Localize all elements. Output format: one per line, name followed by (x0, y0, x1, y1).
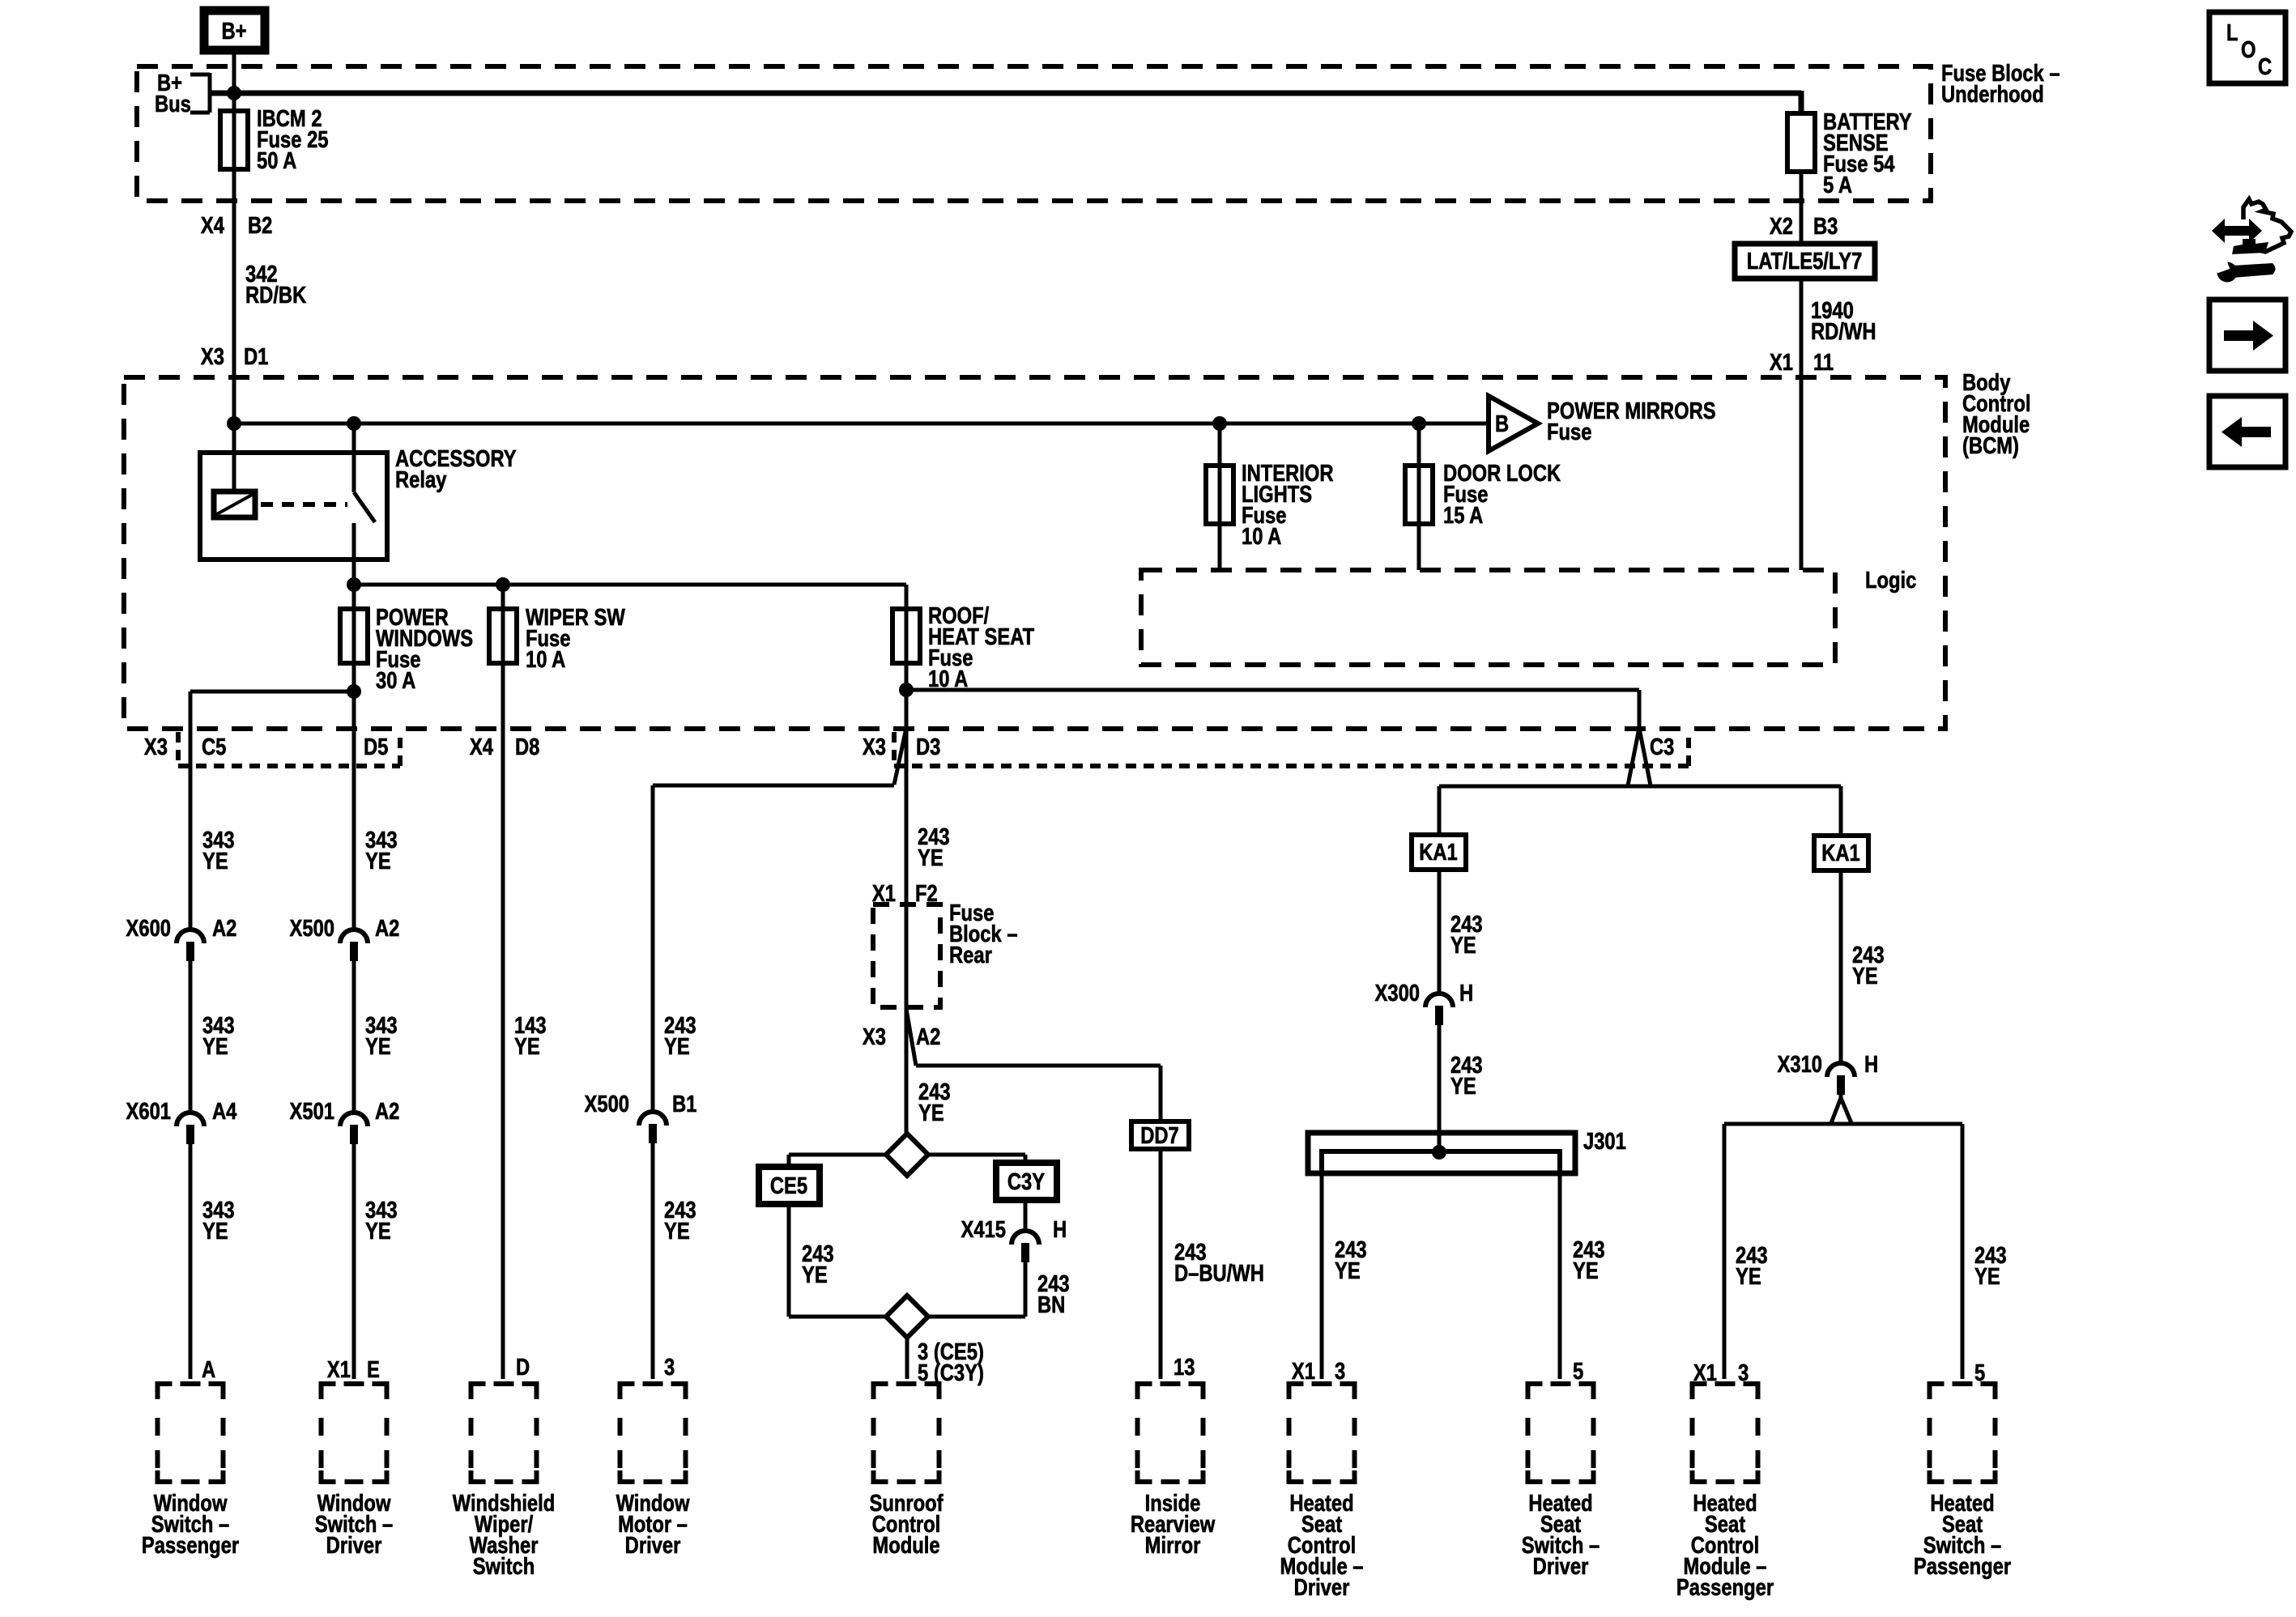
fuse DOOR LOCK 15 A (1405, 423, 1561, 570)
svg-text:A2: A2 (916, 1023, 940, 1050)
label Window Switch - Driver (315, 1490, 393, 1559)
option box CE5 (759, 1167, 820, 1204)
svg-text:A4: A4 (212, 1098, 237, 1125)
wire 343 YE (driver upper) (365, 827, 398, 874)
wire 243 YE (J301 to module driver) (1322, 1173, 1367, 1379)
wire 243 D-BU/WH (1161, 1149, 1264, 1379)
terminal B+ (204, 11, 265, 50)
pin C3 (1650, 734, 1674, 760)
junction power windows fuse (347, 577, 361, 592)
connector X3 bracket (D3 C3) (894, 732, 1689, 766)
svg-text:Underhood: Underhood (1941, 81, 2044, 108)
heated seat switch passenger box (1928, 1381, 1998, 1484)
svg-text:C5: C5 (202, 734, 226, 760)
icon arrow right (2209, 300, 2285, 371)
junction wiper sw fuse (496, 577, 510, 592)
svg-text:YE: YE (365, 1218, 391, 1245)
svg-text:(BCM): (BCM) (1962, 432, 2019, 459)
label Windshield Wiper/Washer Switch (453, 1490, 556, 1580)
svg-text:10 A: 10 A (526, 646, 565, 673)
svg-text:YE: YE (365, 848, 391, 874)
icon arrow left (2209, 396, 2285, 467)
pin 13 (1174, 1354, 1195, 1381)
wire 243 YE (switch passenger) (1974, 1242, 2007, 1290)
node B+ Bus bracket (155, 70, 210, 117)
svg-text:Driver: Driver (1294, 1574, 1350, 1601)
svg-text:L: L (2226, 19, 2238, 46)
svg-text:X4: X4 (470, 734, 493, 760)
svg-text:D3: D3 (916, 734, 940, 760)
label Window Switch - Passenger (142, 1490, 239, 1559)
svg-text:5: 5 (1573, 1358, 1583, 1385)
svg-text:X501: X501 (290, 1098, 334, 1125)
wire window switch driver column (352, 729, 356, 1379)
connector KA1 (passenger) (1814, 836, 1868, 870)
wire 343 YE (passenger upper) (202, 827, 235, 874)
connector X300 H (1375, 980, 1474, 1025)
svg-text:Logic: Logic (1865, 567, 1916, 594)
fuse block rear dashed box (873, 900, 1018, 1007)
svg-text:B2: B2 (248, 212, 272, 239)
svg-text:11: 11 (1813, 349, 1834, 376)
svg-text:D8: D8 (515, 734, 539, 760)
svg-text:X3: X3 (201, 343, 224, 370)
svg-text:YE: YE (1450, 1073, 1476, 1100)
wire 343 YE (passenger middle) (202, 1012, 235, 1060)
label Inside Rearview Mirror (1131, 1490, 1216, 1559)
svg-text:YE: YE (1573, 1257, 1599, 1284)
wire X310 split (1724, 1098, 1962, 1379)
svg-text:BN: BN (1037, 1291, 1065, 1318)
connector X500 B1 (585, 1091, 697, 1143)
svg-text:X1: X1 (327, 1356, 351, 1383)
fuse IBCM 2 Fuse 25 50 A (220, 105, 329, 174)
wire B+ terminal to IBCM 2 fuse and relay coil (232, 50, 236, 491)
svg-text:DD7: DD7 (1140, 1122, 1179, 1149)
wire 243 YE (module passenger) (1736, 1242, 1768, 1290)
wire 243 YE (KA1 driver) (1439, 870, 1483, 1152)
svg-text:Driver: Driver (326, 1532, 382, 1559)
wire windshield wiper column 143 YE (503, 729, 547, 1379)
connector X600 A2 (126, 915, 237, 961)
svg-text:Switch: Switch (473, 1553, 535, 1580)
window switch driver box (319, 1381, 390, 1484)
sunroof control module box (871, 1381, 942, 1484)
svg-text:X2: X2 (1770, 213, 1793, 240)
wire diamond to C3Y (928, 1155, 1025, 1163)
svg-text:B3: B3 (1813, 213, 1838, 240)
svg-text:D: D (516, 1354, 530, 1381)
svg-text:X601: X601 (126, 1098, 171, 1125)
svg-text:D1: D1 (244, 343, 268, 370)
icon LOC (2209, 12, 2285, 83)
pin X1 E (327, 1356, 380, 1383)
wire relay output feeder (354, 583, 906, 587)
label Window Motor - Driver (616, 1490, 690, 1559)
svg-text:X310: X310 (1778, 1051, 1822, 1078)
wire 243 YE (window motor lower) (664, 1197, 696, 1245)
svg-text:YE: YE (202, 1218, 228, 1245)
svg-text:YE: YE (1974, 1263, 2000, 1290)
svg-text:RD/BK: RD/BK (245, 282, 306, 309)
junction J301 (1432, 1145, 1446, 1160)
fuse POWER MIRRORS (triangle B) (1489, 396, 1716, 451)
svg-text:C: C (2258, 53, 2272, 80)
svg-text:A2: A2 (212, 915, 236, 942)
wire branch to DD7 (906, 1009, 1161, 1121)
svg-text:3: 3 (1335, 1358, 1345, 1385)
svg-text:YE: YE (918, 845, 944, 871)
svg-text:KA1: KA1 (1419, 839, 1458, 866)
svg-text:3: 3 (664, 1354, 675, 1381)
wire roof/heat seat branch to C3 (906, 690, 1639, 728)
wire 243 YE (above fuse block rear) (918, 823, 950, 871)
svg-text:X3: X3 (863, 734, 886, 760)
svg-text:50 A: 50 A (257, 147, 296, 174)
pin D5 (364, 734, 388, 760)
connector X601 A4 (126, 1098, 237, 1144)
pin D (516, 1354, 530, 1381)
svg-text:13: 13 (1174, 1354, 1195, 1381)
junction roof/heat seat branch (899, 683, 914, 697)
pin A (202, 1356, 215, 1383)
pin X4 B2 (201, 212, 272, 239)
svg-text:B+: B+ (221, 18, 246, 45)
svg-text:X3: X3 (863, 1023, 886, 1050)
pin 5 (switch driver) (1573, 1358, 1583, 1385)
connector X310 H (1778, 1051, 1879, 1095)
svg-text:X600: X600 (126, 915, 171, 942)
wire 243 YE (window motor upper) (664, 1012, 696, 1060)
svg-text:B1: B1 (672, 1091, 696, 1117)
fuse ROOF/HEAT SEAT 10 A (892, 585, 1034, 729)
svg-text:Passenger: Passenger (1676, 1574, 1774, 1601)
fuse WIPER SW 10 A (489, 585, 625, 729)
wire BCM internal feed bus (234, 422, 1488, 426)
svg-text:Passenger: Passenger (1914, 1553, 2011, 1580)
svg-text:YE: YE (1852, 963, 1878, 989)
svg-text:Module: Module (872, 1532, 939, 1559)
svg-text:C3Y: C3Y (1007, 1168, 1046, 1195)
inside rearview mirror box (1135, 1381, 1206, 1484)
pin 3 (CE5) 5 (C3Y) (918, 1338, 984, 1386)
svg-text:YE: YE (918, 1100, 944, 1126)
wire window motor driver branch (653, 728, 906, 1379)
svg-text:Fuse: Fuse (1547, 419, 1591, 445)
svg-text:RD/WH: RD/WH (1811, 318, 1876, 345)
label Heated Seat Switch - Passenger (1914, 1490, 2011, 1580)
pin 5 (switch passenger) (1974, 1360, 1985, 1386)
svg-text:Mirror: Mirror (1145, 1532, 1201, 1559)
wire 243 YE (X300 to J301) (1450, 1052, 1483, 1100)
svg-text:Rear: Rear (949, 942, 992, 968)
label Heated Seat Control Module - Driver (1280, 1490, 1364, 1601)
svg-text:D5: D5 (364, 734, 388, 760)
fuse block underhood dashed box (137, 66, 1931, 201)
icon repair (hand with arrows and wrench) (2212, 199, 2291, 283)
svg-text:H: H (1864, 1051, 1878, 1078)
svg-text:YE: YE (664, 1218, 690, 1245)
pin X2 B3 (1770, 213, 1838, 240)
wire C3 split (1439, 728, 1841, 836)
option box LAT/LE5/LY7 (1735, 244, 1875, 279)
label Logic (1865, 567, 1916, 594)
wire C3Y to X415 (1024, 1200, 1028, 1231)
svg-text:C3: C3 (1650, 734, 1674, 760)
junction door lock fuse feed (1412, 416, 1426, 431)
wire 243 BN (928, 1262, 1070, 1318)
svg-text:Relay: Relay (395, 466, 447, 493)
svg-text:Bus: Bus (155, 91, 191, 117)
svg-text:LAT/LE5/LY7: LAT/LE5/LY7 (1747, 248, 1863, 274)
pin 3 (window motor) (664, 1354, 675, 1381)
svg-text:KA1: KA1 (1821, 840, 1860, 866)
svg-text:X300: X300 (1375, 980, 1420, 1006)
svg-text:A2: A2 (375, 1098, 399, 1125)
wire 343 YE (passenger lower) (202, 1197, 235, 1245)
pin X3 D1 (201, 343, 268, 370)
connector DD7 (1131, 1121, 1189, 1149)
pin X3 D3 (863, 734, 940, 760)
wire power windows branch to C5 (190, 691, 354, 729)
svg-text:Driver: Driver (1533, 1553, 1589, 1580)
svg-text:X500: X500 (290, 915, 334, 942)
svg-text:H: H (1053, 1216, 1067, 1243)
svg-text:X4: X4 (201, 212, 224, 239)
svg-text:YE: YE (1335, 1257, 1361, 1284)
junction interior lights fuse feed (1212, 416, 1227, 431)
wire 342 RD/BK (245, 261, 306, 309)
wire diamond to CE5 (789, 1155, 886, 1167)
svg-text:YE: YE (664, 1033, 690, 1060)
svg-text:YE: YE (514, 1033, 540, 1060)
windshield wiper/washer switch box (469, 1381, 539, 1484)
svg-text:E: E (367, 1356, 380, 1383)
svg-text:A2: A2 (375, 915, 399, 942)
wire 243 YE (KA1 passenger) (1841, 870, 1885, 1100)
svg-text:YE: YE (1736, 1263, 1761, 1290)
svg-text:X415: X415 (961, 1216, 1006, 1243)
connector X501 A2 (290, 1098, 400, 1144)
fuse POWER WINDOWS 30 A (340, 585, 473, 729)
window switch passenger box (155, 1381, 226, 1484)
fuse INTERIOR LIGHTS 10 A (1206, 423, 1334, 570)
wire battery sense to BCM logic (1800, 172, 1804, 570)
svg-text:O: O (2241, 36, 2256, 63)
svg-text:B: B (1495, 411, 1509, 437)
relay ACCESSORY (200, 423, 517, 585)
logic dashed box (1141, 570, 1835, 665)
svg-text:YE: YE (202, 848, 228, 874)
body control module dashed box (124, 377, 1945, 729)
wire roof fuse to sunroof column (905, 690, 909, 1134)
svg-text:H: H (1459, 980, 1473, 1006)
label Heated Seat Switch - Driver (1522, 1490, 1600, 1580)
wire 343 YE (driver middle) (365, 1012, 398, 1060)
splice pack J301 (1308, 1128, 1626, 1173)
svg-text:Driver: Driver (625, 1532, 681, 1559)
svg-text:30 A: 30 A (376, 667, 415, 694)
svg-text:X1: X1 (1292, 1358, 1315, 1385)
wire B+ bus (210, 91, 1801, 113)
wire lower diamond to sunroof module (905, 1338, 909, 1379)
splice diamond lower (886, 1296, 928, 1338)
svg-text:D–BU/WH: D–BU/WH (1174, 1260, 1264, 1287)
option box C3Y (996, 1163, 1057, 1200)
svg-text:10 A: 10 A (1242, 523, 1281, 550)
wire CE5 to lower diamond 243 YE (789, 1204, 886, 1317)
label Body Control Module (BCM) (1962, 369, 2030, 459)
svg-text:5 A: 5 A (1823, 172, 1852, 198)
label Fuse Block - Underhood (1941, 60, 2060, 108)
wire 243 YE (J301 to switch driver) (1560, 1173, 1605, 1379)
junction B+ bus / IBCM 2 fuse (227, 86, 241, 100)
pin X1 3 (module passenger) (1693, 1360, 1749, 1386)
pin X4 D8 (470, 734, 539, 760)
connector X3 bracket (C5 D5) (178, 732, 400, 766)
heated seat switch driver box (1526, 1381, 1596, 1484)
wire 343 YE (driver lower) (365, 1197, 398, 1245)
svg-text:YE: YE (202, 1033, 228, 1060)
svg-text:X500: X500 (585, 1091, 629, 1117)
wire 1940 RD/WH (1811, 297, 1876, 345)
svg-text:CE5: CE5 (770, 1172, 807, 1199)
wire window switch passenger column (189, 691, 193, 1379)
svg-text:YE: YE (1450, 932, 1476, 959)
connector X415 H (961, 1216, 1067, 1262)
connector X500 A2 (290, 915, 400, 961)
svg-text:15 A: 15 A (1443, 502, 1483, 529)
label Sunroof Control Module (869, 1490, 943, 1559)
pin X3 A2 (863, 1023, 940, 1050)
label Heated Seat Control Module - Passenger (1676, 1490, 1774, 1601)
svg-text:X1: X1 (1770, 349, 1793, 376)
pin X3 C5 (144, 734, 226, 760)
junction relay switch feed (347, 416, 361, 431)
svg-text:J301: J301 (1583, 1128, 1626, 1155)
junction power windows branch (347, 684, 361, 699)
junction relay coil feed (227, 416, 241, 431)
pin X1 11 (1770, 349, 1834, 376)
wire 243 YE (below fuse block rear) (918, 1079, 951, 1126)
svg-text:YE: YE (802, 1262, 828, 1288)
fuse BATTERY SENSE Fuse 54 5 A (1787, 109, 1912, 198)
heated seat control module driver box (1287, 1381, 1357, 1484)
connector KA1 (driver) (1412, 835, 1466, 870)
svg-text:Passenger: Passenger (142, 1532, 239, 1559)
svg-text:A: A (202, 1356, 215, 1383)
svg-text:YE: YE (365, 1033, 391, 1060)
heated seat control module passenger box (1690, 1381, 1761, 1484)
window motor driver box (618, 1381, 688, 1484)
svg-text:X3: X3 (144, 734, 168, 760)
splice diamond upper (886, 1134, 928, 1176)
pin X1 F2 (872, 880, 938, 907)
pin X1 3 (module driver) (1292, 1358, 1345, 1385)
